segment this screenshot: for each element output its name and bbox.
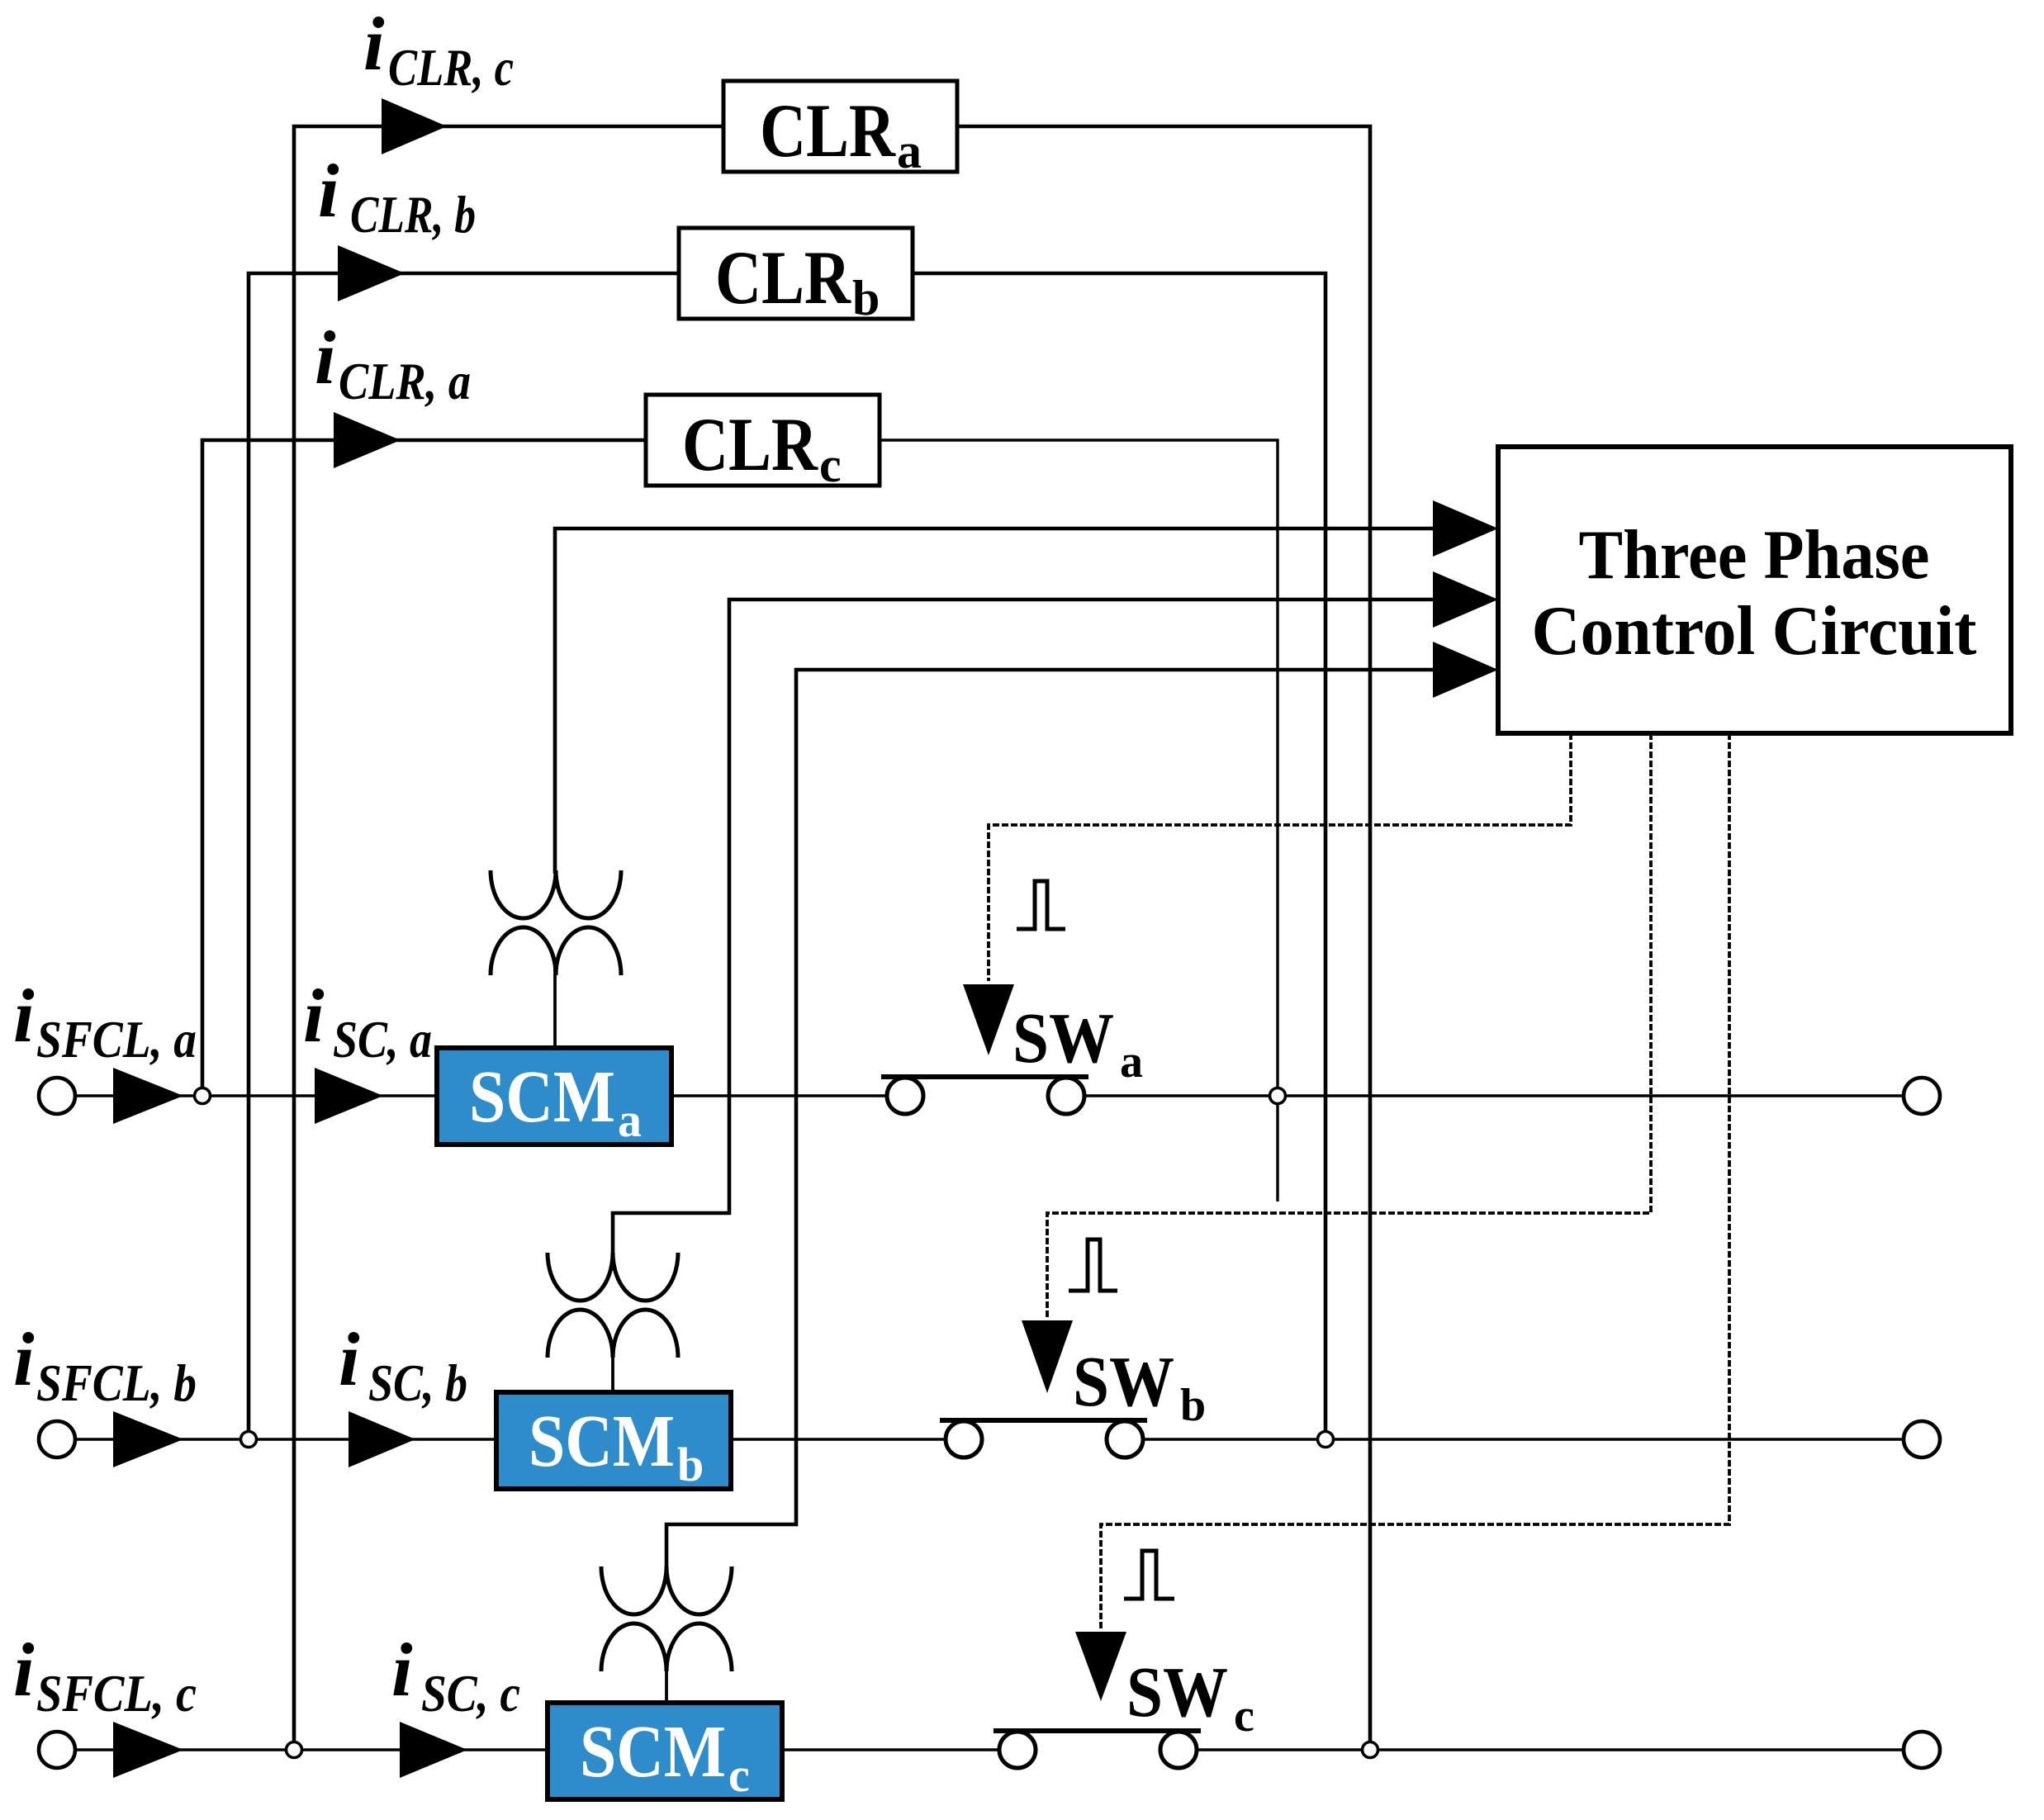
switch SW_b contacts (946, 1421, 982, 1457)
current transformer CT_b (548, 1253, 678, 1358)
svg-text:a: a (618, 1093, 642, 1147)
svg-text:SC, a: SC, a (333, 1010, 432, 1069)
node junction phase b / CLR_b right (1318, 1432, 1334, 1448)
svg-text:i: i (391, 1628, 413, 1712)
svg-text:SC, c: SC, c (421, 1664, 520, 1723)
svg-text:SW: SW (1073, 1341, 1174, 1421)
svg-text:SCM: SCM (580, 1711, 726, 1793)
svg-text:Control Circuit: Control Circuit (1532, 592, 1977, 670)
terminal phase c right (1904, 1732, 1940, 1768)
svg-text:i: i (13, 1628, 35, 1712)
arrow i_SC,a (315, 1068, 383, 1124)
current transformer CT_c (601, 1566, 732, 1671)
wire CLR line 2 (i_CLR,b branch) (249, 273, 679, 1439)
pulse symbol SW_a (1017, 881, 1065, 929)
svg-text:c: c (819, 438, 842, 492)
block SCM_a (437, 1048, 671, 1145)
wire CLR line 2 right + vertical to phase b (914, 273, 1326, 1439)
svg-text:CLR: CLR (682, 402, 818, 486)
svg-text:i: i (363, 2, 385, 86)
block SCM_b (496, 1392, 731, 1489)
wire CT_a lower stem to SCM_a (553, 968, 557, 1050)
switch SW_a gate triangle (963, 984, 1014, 1055)
dashed gate line SW_b from control circuit (1047, 733, 1651, 1317)
switch SW_c contacts (999, 1732, 1036, 1768)
terminal phase c left (39, 1732, 75, 1768)
svg-text:SFCL, a: SFCL, a (36, 1010, 197, 1069)
switch SW_b gate triangle (1022, 1320, 1073, 1393)
wire CT_c lower stem to SCM_c (665, 1666, 668, 1704)
svg-text:CLR: CLR (715, 235, 851, 320)
svg-text:Three Phase: Three Phase (1579, 516, 1930, 594)
svg-text:CLR, c: CLR, c (388, 38, 514, 97)
arrow i_SFCL,a (113, 1068, 183, 1124)
resistor box CLR_a (723, 81, 957, 172)
svg-text:SCM: SCM (469, 1056, 615, 1138)
svg-text:SW: SW (1013, 998, 1114, 1078)
terminal phase b left (39, 1421, 75, 1457)
svg-text:CLR, a: CLR, a (339, 352, 471, 410)
svg-text:i: i (13, 1317, 35, 1401)
svg-text:SFCL, b: SFCL, b (36, 1353, 197, 1412)
wire CLR line 3 (i_CLR,a branch) (202, 440, 646, 1096)
switch SW_c bar (994, 1728, 1201, 1733)
dashed gate line SW_a from control circuit (989, 733, 1571, 981)
arrow i_CLR,a (334, 412, 401, 468)
wire control input 3 (from CT_c) (666, 670, 1437, 1570)
wire CLR line 1 right + vertical to phase c (957, 126, 1370, 1750)
node junction phase a / CLR_c right (1270, 1088, 1286, 1104)
switch SW_c gate triangle (1075, 1632, 1126, 1701)
wire phase b left segment (75, 1438, 946, 1440)
svg-text:i: i (315, 315, 336, 400)
arrow i_CLR,c (382, 98, 447, 154)
wire phase c right segment (1197, 1748, 1904, 1751)
svg-text:i: i (303, 974, 325, 1058)
svg-text:c: c (1234, 1690, 1254, 1742)
node junction phase a / CLR_c left (195, 1088, 211, 1104)
resistor box CLR_b (679, 228, 913, 319)
svg-text:CLR: CLR (760, 88, 896, 173)
svg-text:SC, b: SC, b (368, 1353, 467, 1412)
arrow i_SC,b (349, 1411, 415, 1467)
block Three Phase Control Circuit (1498, 447, 2011, 733)
svg-text:b: b (852, 271, 880, 325)
svg-text:i: i (339, 1317, 360, 1401)
block SCM_c (548, 1703, 782, 1799)
wire CT_b lower stem to SCM_b (611, 1352, 614, 1394)
wire CLR top line 1 (i_CLR,c branch) (294, 126, 723, 1750)
wire control input 1 (from CT_a) (555, 528, 1437, 874)
svg-text:i: i (13, 974, 35, 1058)
pulse symbol SW_b (1069, 1239, 1117, 1291)
terminal phase b right (1904, 1421, 1940, 1457)
arrow i_SFCL,b (113, 1411, 183, 1467)
dashed gate line SW_c from control circuit (1101, 733, 1729, 1628)
arrow i_CLR,b (338, 245, 405, 301)
svg-text:CLR, b: CLR, b (350, 185, 476, 244)
node junction phase c / CLR_a right (1363, 1742, 1378, 1758)
switch SW_b bar (940, 1418, 1147, 1423)
svg-text:SCM: SCM (529, 1401, 675, 1482)
arrow control input 3 (1433, 642, 1498, 698)
resistor box CLR_c (646, 395, 880, 486)
svg-text:SFCL, c: SFCL, c (36, 1664, 197, 1723)
switch SW_a bar (881, 1074, 1088, 1079)
wire phase a left segment (75, 1094, 887, 1097)
terminal phase a right (1904, 1078, 1940, 1114)
terminal phase a left (39, 1078, 75, 1114)
wire CLR line 3 right + vertical stub through phase a (880, 440, 1278, 1201)
svg-text:b: b (677, 1438, 704, 1491)
node junction phase b / CLR_b left (241, 1432, 257, 1448)
wire phase c left segment (75, 1748, 999, 1751)
arrow i_SC,c (400, 1722, 467, 1778)
svg-text:a: a (1120, 1036, 1143, 1088)
current transformer CT_a (491, 870, 621, 975)
svg-text:SW: SW (1126, 1652, 1228, 1732)
wire phase b right segment (1143, 1438, 1904, 1440)
arrow control input 1 (1433, 500, 1498, 557)
wire control input 2 (from CT_b) (613, 600, 1437, 1256)
arrow control input 2 (1433, 571, 1498, 628)
svg-text:c: c (728, 1748, 750, 1802)
node junction phase c / CLR_a left (287, 1742, 302, 1758)
wire phase a right segment (1084, 1094, 1904, 1097)
switch SW_a contacts (887, 1078, 923, 1114)
arrow i_SFCL,c (113, 1722, 183, 1778)
svg-text:i: i (318, 149, 339, 233)
svg-text:b: b (1180, 1380, 1206, 1431)
pulse symbol SW_c (1124, 1551, 1174, 1599)
svg-text:a: a (897, 124, 922, 178)
